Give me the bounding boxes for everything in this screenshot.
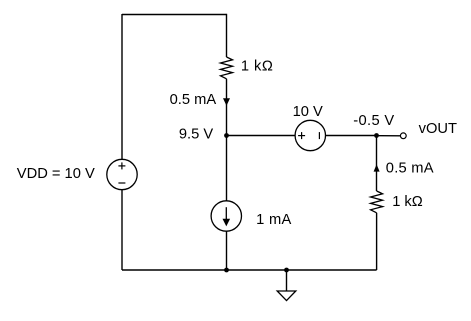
label vOUT: [419, 121, 457, 137]
svg-text:1 mA: 1 mA: [256, 212, 291, 228]
wire: node A down to current source: [226, 136, 228, 202]
junction dot (I1 branch at bottom rail): [224, 268, 229, 273]
ground: [277, 291, 296, 301]
wire: node B to output terminal: [377, 135, 401, 137]
wire: left vertical lower: [121, 190, 123, 270]
node B junction dot: [374, 133, 379, 138]
label 10 V (V2 value): [293, 104, 323, 120]
terminal vOUT (open circle): [400, 133, 406, 139]
svg-text:0.5 mA: 0.5 mA: [386, 160, 434, 176]
svg-text:0.5 mA: 0.5 mA: [170, 92, 217, 108]
wire: node A to source V2: [227, 135, 296, 137]
wire: top horizontal: [122, 14, 227, 16]
label -0.5 V (node B voltage): [353, 113, 394, 129]
wire: R2 bottom to bottom rail: [376, 213, 378, 270]
voltage source V2 10 V: [295, 120, 325, 150]
svg-text:9.5 V: 9.5 V: [179, 126, 213, 142]
wire: R1 bottom to node A: [226, 79, 228, 136]
wire: node B down to resistor R2: [376, 136, 378, 192]
svg-text:vOUT: vOUT: [419, 121, 457, 137]
label 1 kΩ (R1 value): [241, 59, 273, 75]
svg-text:-0.5 V: -0.5 V: [353, 113, 394, 129]
svg-text:1 kΩ: 1 kΩ: [392, 194, 423, 210]
label 0.5 mA (right): [386, 160, 434, 176]
current source I1 1 mA: [211, 201, 241, 231]
wire: V2 to node B: [326, 135, 377, 137]
current arrow 0.5 mA (up): [374, 164, 380, 171]
junction dot (ground tap at bottom rail): [284, 268, 289, 273]
wire: bottom rail: [122, 269, 377, 271]
svg-text:10 V: 10 V: [293, 104, 323, 120]
svg-text:1 kΩ: 1 kΩ: [241, 59, 273, 75]
wire: current source to bottom rail: [226, 231, 228, 270]
resistor R2: [371, 191, 383, 213]
label 1 mA (I1 value): [256, 212, 291, 228]
label VDD = 10 V: [17, 166, 95, 182]
label 1 kΩ (R2 value): [392, 194, 423, 210]
svg-text:VDD = 10 V: VDD = 10 V: [17, 166, 95, 182]
wire: ground stub: [286, 270, 288, 291]
label 9.5 V (node A voltage): [179, 126, 213, 142]
label 0.5 mA (top): [170, 92, 217, 108]
node A junction dot: [224, 133, 229, 138]
wire: top right drop to resistor: [226, 14, 228, 57]
voltage source VDD: [107, 159, 137, 189]
current arrow 0.5 mA (down): [223, 98, 230, 106]
resistor R1: [221, 57, 233, 79]
wire: left vertical upper: [121, 14, 123, 159]
